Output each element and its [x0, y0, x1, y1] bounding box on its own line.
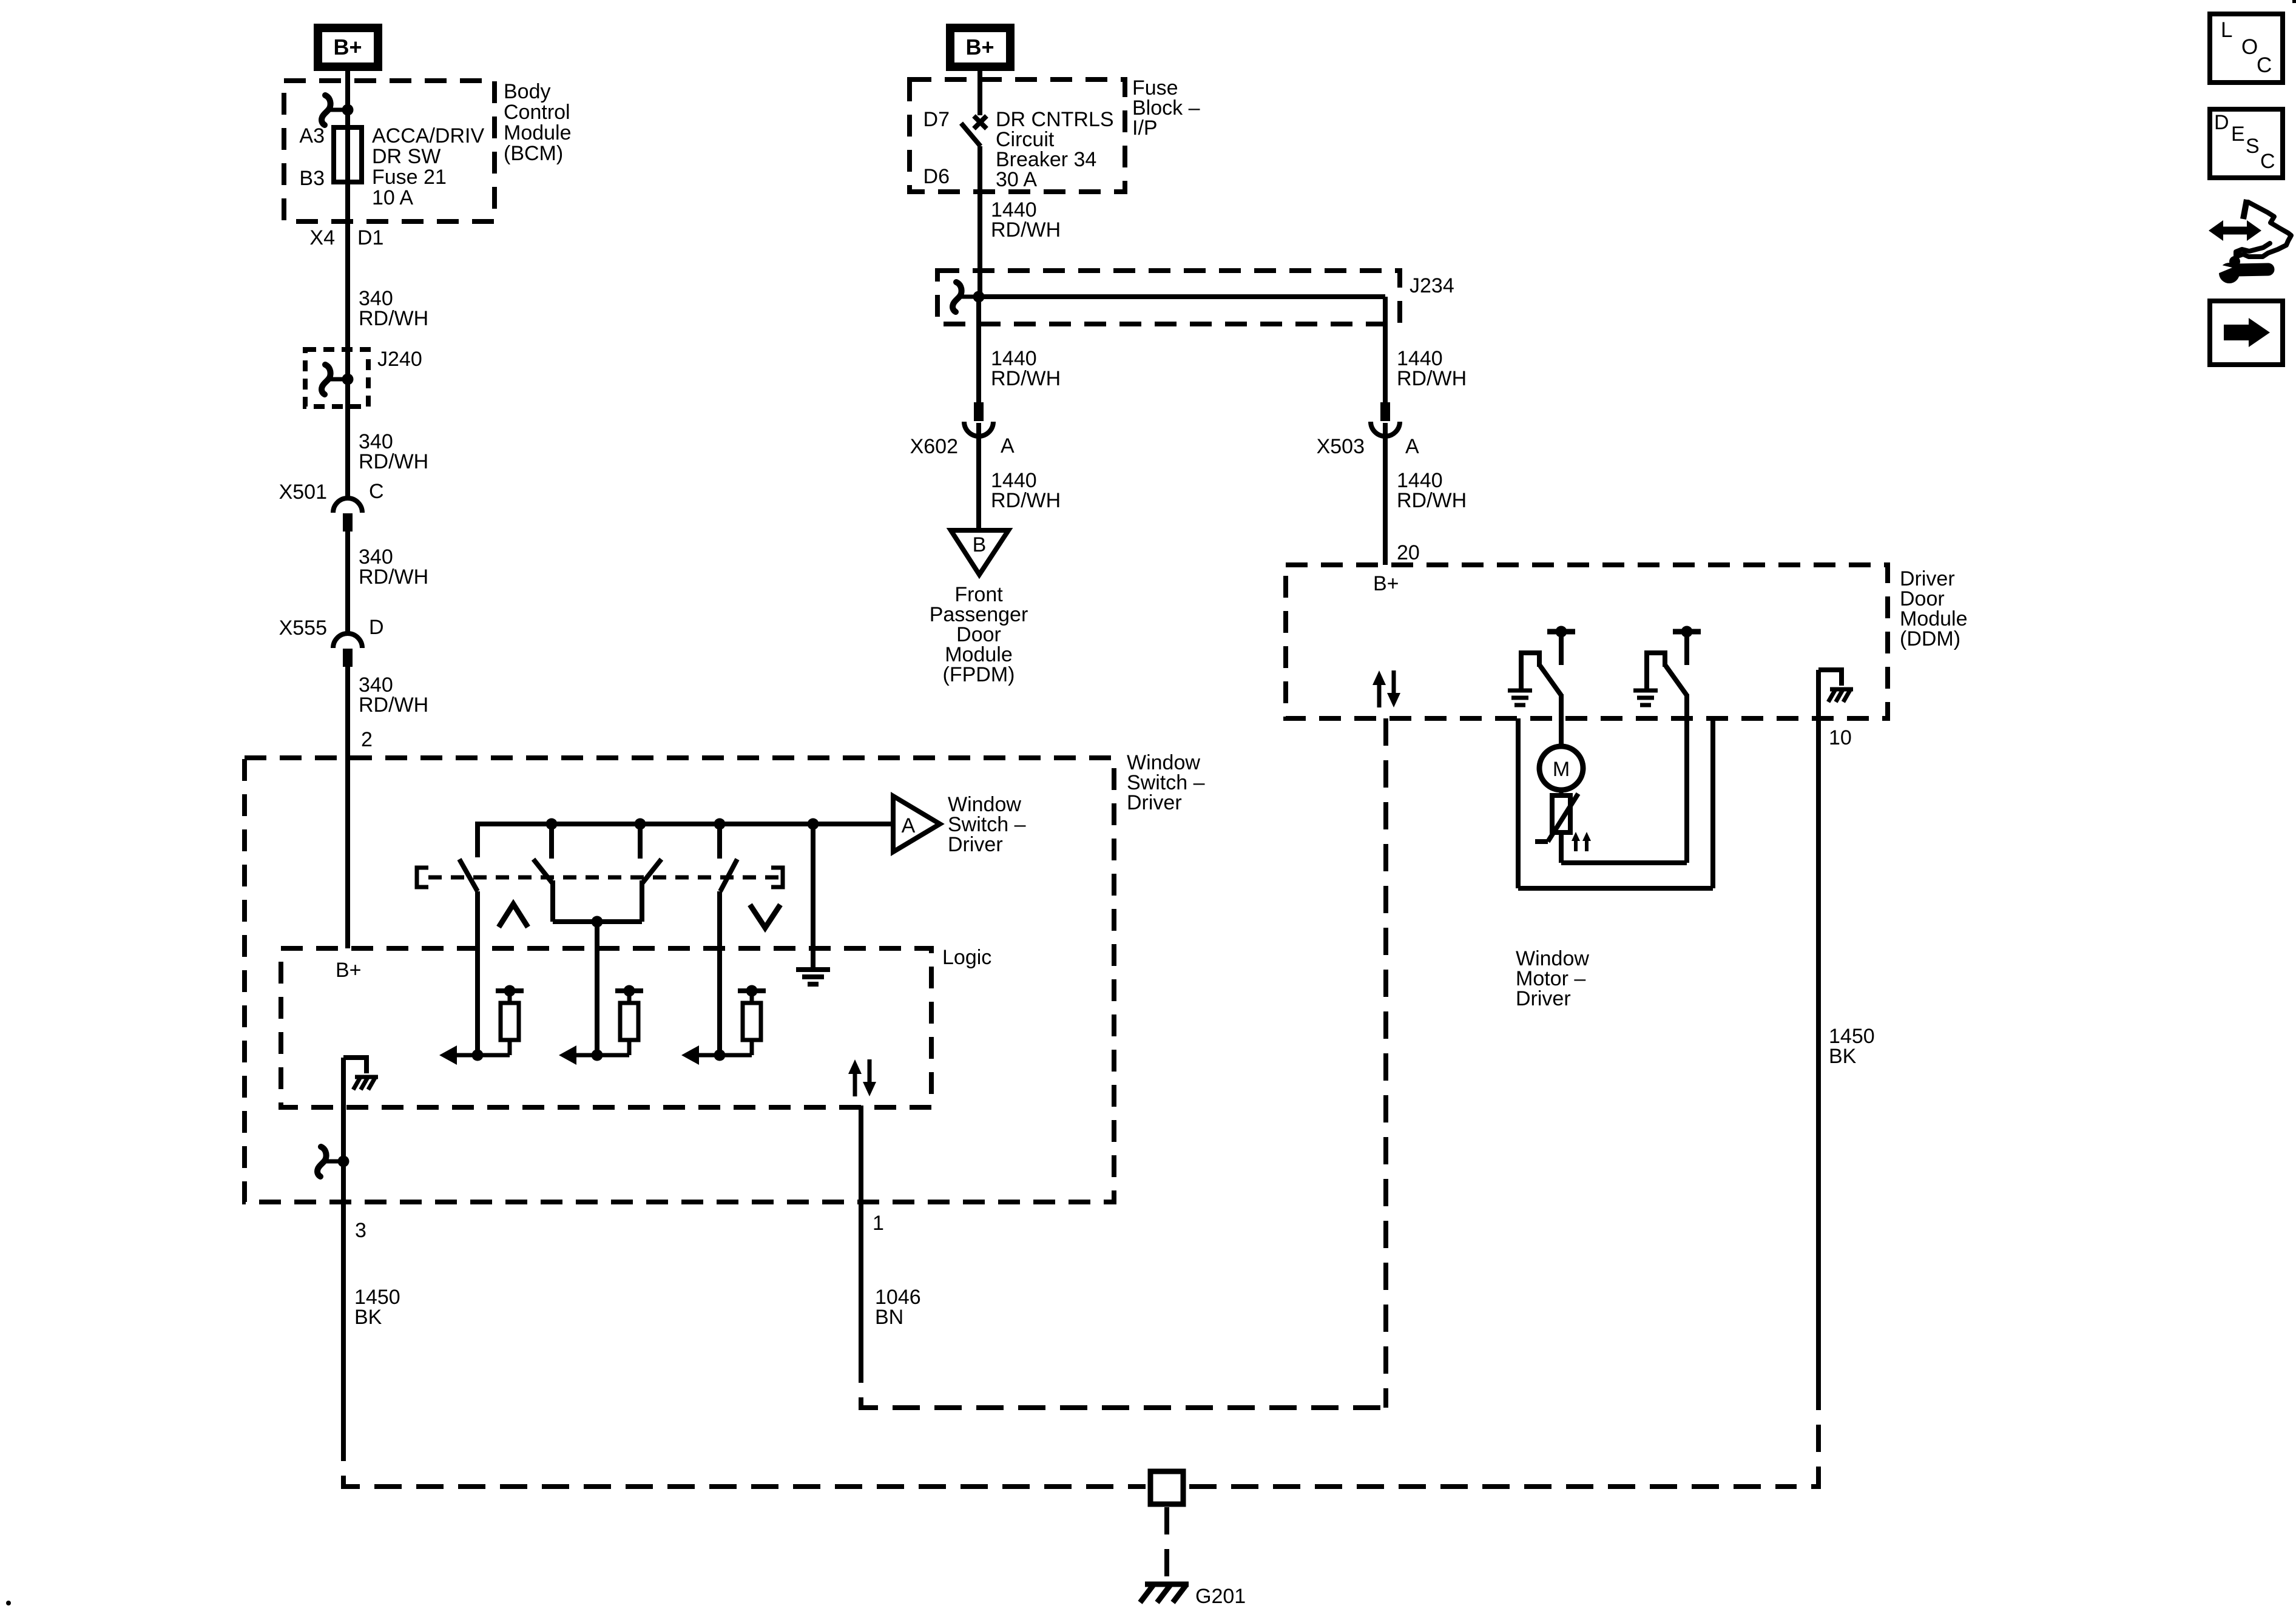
pin D1 label — [357, 226, 383, 249]
actuator bracket right — [771, 868, 783, 887]
svg-text:RD/WH: RD/WH — [991, 218, 1061, 241]
wire SW4 to logic — [717, 891, 722, 1055]
resistor R1 with arrow — [439, 985, 524, 1065]
ground (switch common) — [796, 970, 830, 984]
power feed B+ (fuse block) — [950, 28, 1010, 67]
svg-text:RD/WH: RD/WH — [991, 489, 1061, 512]
svg-text:D7: D7 — [923, 108, 950, 131]
svg-text:BN: BN — [875, 1306, 903, 1329]
connector X602 label — [910, 435, 958, 458]
svg-text:2: 2 — [361, 728, 373, 751]
svg-text:A: A — [902, 814, 916, 837]
terminal A label (X602) — [1001, 434, 1015, 457]
svg-text:RD/WH: RD/WH — [359, 694, 428, 717]
ground (K1) — [1508, 690, 1532, 705]
svg-text:D6: D6 — [923, 165, 950, 188]
Driver Door Module dashed box — [1286, 565, 1888, 718]
splice J234 dashed box — [937, 271, 1400, 324]
wire label 1440 RD/WH e — [1397, 469, 1467, 512]
triangle output label — [948, 793, 1026, 856]
wire X501 to X555 — [345, 532, 350, 633]
svg-text:10: 10 — [1829, 726, 1852, 749]
switch SW4 down — [720, 859, 737, 891]
node B+ label (DDM) — [1373, 572, 1399, 595]
svg-text:B+: B+ — [1373, 572, 1399, 595]
svg-text:Driver: Driver — [1516, 987, 1571, 1010]
svg-text:B: B — [973, 533, 987, 556]
ground connector node — [1150, 1471, 1183, 1504]
svg-text:B+: B+ — [336, 959, 362, 982]
svg-text:Control: Control — [504, 101, 570, 124]
terminal D label — [369, 616, 384, 639]
icon wrench — [2214, 256, 2268, 283]
svg-text:(BCM): (BCM) — [504, 142, 563, 165]
wire fuse to J240 — [345, 182, 350, 498]
up-down arrows (DDM) — [1373, 670, 1400, 707]
svg-text:RD/WH: RD/WH — [991, 367, 1061, 390]
svg-text:ACCA/DRIV: ACCA/DRIV — [372, 124, 484, 147]
connector X501 — [333, 498, 362, 532]
svg-text:J234: J234 — [1410, 274, 1454, 297]
svg-text:M: M — [1553, 758, 1570, 781]
svg-text:B+: B+ — [333, 35, 362, 59]
svg-text:C: C — [369, 480, 384, 503]
terminal A label (X503) — [1405, 435, 1419, 458]
wire label 1046 BN — [875, 1286, 921, 1329]
Fuse Block label — [1132, 76, 1200, 140]
svg-text:D1: D1 — [357, 226, 383, 249]
node B+ label (switch) — [336, 959, 362, 982]
svg-text:RD/WH: RD/WH — [1397, 489, 1467, 512]
pin 20 label — [1397, 541, 1420, 564]
Body Control Module (BCM) dashed box — [284, 81, 495, 221]
DDM label — [1900, 567, 1968, 650]
Window Switch Driver box label — [1127, 751, 1205, 814]
relay contact K1 feed — [1547, 626, 1575, 666]
svg-text:Driver: Driver — [1127, 791, 1182, 814]
svg-text:A: A — [1405, 435, 1419, 458]
wire X503 to DDM — [1383, 423, 1388, 565]
pin 2 label — [361, 728, 373, 751]
icon DESC box — [2210, 109, 2283, 178]
motor outer loop — [1518, 718, 1713, 888]
wire label 340 RD/WH a — [359, 287, 428, 330]
Window Motor label — [1516, 947, 1589, 1010]
fuse ACCA/DRIV DR SW Fuse 21 10A — [334, 127, 362, 182]
connector X555 label — [279, 616, 327, 640]
actuator bracket left — [417, 868, 428, 887]
motor M circle — [1539, 746, 1583, 790]
wire DDM ground down — [1816, 670, 1821, 1404]
splice clip J234 — [953, 282, 984, 312]
svg-text:A: A — [1001, 434, 1015, 457]
svg-text:C: C — [2257, 53, 2272, 77]
svg-text:X4: X4 — [309, 226, 335, 249]
svg-text:Driver: Driver — [948, 833, 1003, 856]
svg-text:A3: A3 — [299, 124, 325, 147]
ground bus dashed right — [1189, 1484, 1784, 1489]
Logic dashed box — [281, 948, 931, 1107]
svg-text:X501: X501 — [279, 481, 327, 504]
connector X503 — [1371, 402, 1400, 436]
wire label 1450 BK right — [1829, 1025, 1875, 1068]
splice clip below logic — [317, 1147, 349, 1176]
bus wire in switch — [478, 822, 893, 857]
svg-text:BK: BK — [354, 1306, 382, 1329]
wire label 1440 RD/WH c — [991, 469, 1061, 512]
icon outline shape — [2236, 200, 2291, 257]
ground hook (DDM) — [1818, 670, 1853, 702]
circuit breaker arm — [961, 123, 981, 146]
wire K1 to motor — [1559, 694, 1564, 748]
BCM name label — [504, 80, 572, 165]
page corner artifact — [2292, 0, 2296, 3]
resistor R3 with arrow — [681, 985, 766, 1065]
wire X602 to FPDM — [976, 423, 981, 530]
dropper wires — [552, 824, 720, 859]
wire B+ to breaker — [977, 67, 982, 115]
dashed wire to G201 — [1164, 1507, 1169, 1576]
motor inner loop — [1561, 860, 1687, 865]
svg-text:S: S — [2246, 135, 2260, 158]
svg-text:Logic: Logic — [942, 946, 991, 969]
power feed B+ (BCM) — [318, 28, 378, 67]
double up arrows — [1572, 832, 1591, 851]
breaker contact X — [974, 116, 987, 129]
wire label 1440 RD/WH a — [991, 198, 1061, 241]
wire B+ to BCM fuse — [345, 67, 350, 131]
wire SW1 to logic — [475, 891, 480, 1055]
breaker label — [996, 108, 1114, 191]
FPDM label — [930, 583, 1028, 686]
svg-text:Fuse 21: Fuse 21 — [372, 166, 447, 189]
off-page triangle B (FPDM) — [951, 530, 1008, 575]
wire label 1450 BK left — [354, 1286, 400, 1329]
svg-text:DR SW: DR SW — [372, 145, 441, 168]
svg-text:E: E — [2231, 123, 2245, 146]
icon forward arrow box — [2210, 301, 2283, 365]
relay contact K2 — [1644, 653, 1687, 695]
dashed wire DDM down — [1383, 718, 1388, 1408]
svg-text:(FPDM): (FPDM) — [943, 663, 1015, 686]
relay contact K2 feed — [1673, 626, 1701, 666]
dashed wire right to bus — [1784, 1404, 1818, 1487]
thermistor (PTC) — [1535, 789, 1578, 842]
splice J240 dashed box — [305, 349, 368, 407]
wire label 1440 RD/WH b — [991, 347, 1061, 390]
switch SW2 — [533, 859, 553, 922]
wire K2 to motor loop — [1684, 694, 1689, 863]
pin B3 label — [299, 167, 325, 190]
pin 1 label — [873, 1212, 884, 1235]
svg-text:X503: X503 — [1317, 435, 1365, 458]
wire thermistor down — [1559, 832, 1564, 863]
connector X503 label — [1317, 435, 1365, 458]
svg-text:G201: G201 — [1195, 1585, 1246, 1608]
wire label 340 RD/WH c — [359, 545, 428, 589]
svg-text:3: 3 — [355, 1219, 366, 1242]
svg-text:20: 20 — [1397, 541, 1420, 564]
icon double arrow — [2209, 220, 2261, 241]
wire X555 to window switch — [345, 667, 350, 948]
splice clip J240 — [322, 365, 353, 394]
svg-text:D: D — [369, 616, 384, 639]
svg-text:RD/WH: RD/WH — [1397, 367, 1467, 390]
G201 label — [1195, 1585, 1246, 1608]
terminal C label — [369, 480, 384, 503]
svg-text:BK: BK — [1829, 1045, 1857, 1068]
svg-text:RD/WH: RD/WH — [359, 450, 428, 473]
pin D6 label — [923, 165, 950, 188]
icon LOC box — [2210, 14, 2283, 83]
svg-text:(DDM): (DDM) — [1900, 627, 1960, 650]
svg-text:Module: Module — [504, 121, 572, 144]
Fuse Block I/P dashed box — [910, 79, 1125, 192]
svg-text:O: O — [2241, 35, 2258, 59]
svg-text:RD/WH: RD/WH — [359, 307, 428, 330]
pin X4 label — [309, 226, 335, 249]
switch common bar — [553, 916, 642, 928]
splice clip in BCM — [322, 95, 353, 125]
connector X602 — [964, 402, 993, 436]
svg-text:X602: X602 — [910, 435, 958, 458]
pin D7 label — [923, 108, 950, 131]
wire logic ground down — [341, 1058, 346, 1447]
svg-text:X555: X555 — [279, 616, 327, 640]
svg-text:10 A: 10 A — [372, 186, 413, 209]
ground dropper wire — [811, 824, 815, 968]
Logic label — [942, 946, 991, 969]
ground (K2) — [1633, 690, 1658, 705]
wire label 340 RD/WH b — [359, 430, 428, 473]
dashed wire left to bus and ground bus left — [343, 1447, 1146, 1487]
connector X555 — [333, 633, 362, 667]
pin 10 label — [1829, 726, 1852, 749]
svg-text:J240: J240 — [377, 348, 422, 371]
svg-text:I/P: I/P — [1132, 116, 1158, 140]
wire breaker to J234 — [977, 146, 982, 297]
page artifact dot — [6, 1601, 11, 1605]
J240 label — [377, 348, 422, 371]
wire common to logic — [595, 922, 599, 1055]
wire J234 branch right — [979, 297, 1385, 402]
wire label 340 RD/WH d — [359, 673, 428, 717]
svg-text:B+: B+ — [965, 35, 994, 59]
connector X501 label — [279, 481, 327, 504]
ground hook (logic) — [343, 1058, 378, 1090]
down caret symbol — [750, 905, 780, 928]
output buffer A triangle — [893, 796, 940, 852]
fuse value label — [372, 124, 484, 209]
svg-text:RD/WH: RD/WH — [359, 565, 428, 589]
ground G201 — [1140, 1584, 1189, 1602]
bus junction dots — [546, 819, 819, 830]
resistor R2 with arrow — [559, 985, 643, 1065]
wire label 1440 RD/WH d — [1397, 347, 1467, 390]
up caret symbol — [499, 904, 528, 927]
relay contact K1 — [1519, 653, 1561, 695]
svg-text:B3: B3 — [299, 167, 325, 190]
switch SW1 up — [459, 859, 478, 891]
pin 3 label — [355, 1219, 366, 1242]
pin A3 label — [299, 124, 325, 147]
J234 label — [1410, 274, 1454, 297]
wire J234 down left — [976, 297, 981, 402]
svg-text:30 A: 30 A — [996, 168, 1037, 191]
Window Switch Driver dashed box — [245, 758, 1114, 1202]
wire pin1 down — [859, 1106, 863, 1380]
svg-text:L: L — [2221, 18, 2232, 42]
svg-text:D: D — [2214, 111, 2229, 134]
dashed wire pin1 elbow — [861, 1380, 1385, 1408]
switch SW3 — [642, 859, 661, 922]
up-down arrows (logic output) — [848, 1059, 876, 1096]
svg-text:C: C — [2260, 150, 2275, 173]
svg-text:Body: Body — [504, 80, 551, 103]
switch actuator dashed link — [428, 876, 783, 880]
svg-text:1: 1 — [873, 1212, 884, 1235]
